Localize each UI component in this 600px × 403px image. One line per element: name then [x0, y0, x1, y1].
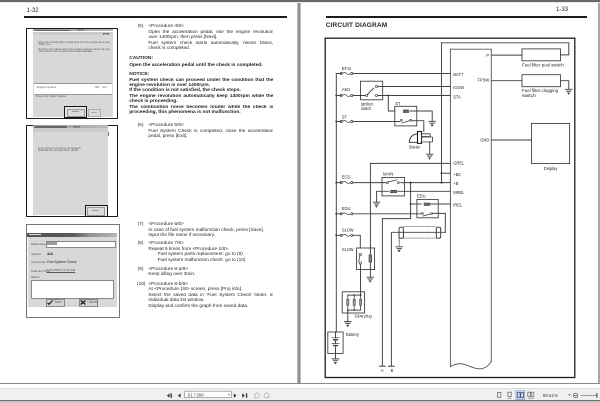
- node: bus-ECD junction: [335, 182, 337, 184]
- LEFT PAGE TEXT COLUMN: [138, 24, 144, 30]
- svg-text:switch: switch: [522, 93, 537, 98]
- svg-text:A: A: [381, 368, 384, 373]
- wire: top feed vertical: [441, 43, 443, 183]
- wire: battery to ground: [335, 353, 337, 358]
- svg-text:IGSW: IGSW: [453, 85, 464, 90]
- wire: ST fuse to ST relay contact: [336, 121, 399, 123]
- svg-text:Starter: Starter: [409, 145, 421, 150]
- pin +B: [453, 181, 458, 186]
- ground: clogging switch: [566, 89, 573, 94]
- ground: MAIN relay coil: [373, 202, 380, 207]
- SCREENSHOT BOX 2: [26, 125, 118, 218]
- top window edge: [0, 0, 600, 2]
- display unit: [532, 123, 570, 170]
- svg-text:BATT: BATT: [453, 72, 464, 77]
- battery: [328, 332, 360, 354]
- wire: starter to ground: [429, 142, 431, 154]
- wire: AM1 to ignition switch: [336, 95, 366, 97]
- EDU driver unit (dashed): [399, 227, 441, 239]
- svg-text:ST: ST: [342, 114, 348, 119]
- wire: EDU relay contact to EDU driver: [433, 213, 445, 232]
- node: bus-ST fuse junction: [335, 121, 337, 123]
- svg-text:EDU: EDU: [417, 193, 426, 198]
- svg-text:EDU: EDU: [342, 206, 351, 211]
- relay GLOW: [342, 247, 375, 270]
- wire: clogging switch to ground: [561, 81, 569, 89]
- ground: EDU driver: [396, 247, 403, 252]
- wire: EDU coil to IREL pin: [430, 203, 451, 205]
- wire: P pin to pool switch: [491, 54, 522, 56]
- svg-text:61 / 590: 61 / 590: [188, 392, 204, 397]
- wire: MAIN coil to MREL pin: [398, 190, 451, 192]
- node: STA wire to ST relay: [387, 95, 389, 97]
- svg-text:Fuel filter pool switch: Fuel filter pool switch: [522, 63, 564, 68]
- svg-text:STA: STA: [453, 94, 461, 99]
- bottom page edge line: [0, 383, 600, 384]
- wire: ignition switch to STA pin: [378, 95, 451, 97]
- fuse AM1: [340, 87, 353, 96]
- pin STA: [453, 94, 461, 99]
- wire: top feed horizontal to pool switch: [442, 43, 569, 55]
- RIGHT PAGE HEADER: [556, 7, 568, 13]
- wire: glow relay contact to glow plugs: [360, 264, 362, 295]
- wire: MAIN contact to +B pin: [401, 182, 451, 184]
- wire: ECD fuse to MAIN relay: [336, 182, 385, 184]
- wire: main left supply bus: [335, 74, 337, 333]
- svg-text:switch: switch: [361, 106, 372, 111]
- svg-text:FPSW: FPSW: [477, 78, 489, 83]
- motor: starter: [409, 132, 433, 150]
- pin MREL: [453, 190, 465, 195]
- svg-text:MAIN: MAIN: [383, 171, 393, 176]
- svg-text:Display: Display: [544, 166, 559, 171]
- svg-text:ECD: ECD: [342, 175, 351, 180]
- pin P: [486, 53, 489, 58]
- node: EDU coil feed: [410, 182, 412, 205]
- node: +B2 feed: [441, 172, 443, 174]
- node: +B feed: [441, 182, 443, 184]
- LEFT PAGE HEADER: [27, 8, 39, 14]
- ground: glow relay coil: [367, 277, 374, 282]
- wire: EFI1 to BATT pin: [336, 73, 450, 75]
- fuse EFI1: [340, 66, 353, 75]
- fuel filter pool switch: [522, 49, 564, 68]
- svg-text:GND: GND: [480, 137, 489, 142]
- fuse ST: [340, 114, 353, 122]
- pin GND: [480, 137, 489, 142]
- fuse EDU: [340, 206, 353, 215]
- page divider center: [297, 3, 301, 384]
- wire: +B feed down through EDU coil to terminal A: [382, 183, 410, 367]
- fuel filter clogging switch: [522, 75, 561, 98]
- wire: GLOW fuse to glow relay: [336, 235, 360, 248]
- wire: ST relay contact to starter: [412, 121, 424, 132]
- svg-text:B: B: [391, 368, 394, 373]
- wire: +B2 stub: [442, 172, 451, 174]
- svg-text:GLOW: GLOW: [342, 227, 354, 232]
- glow plug assembly: [342, 292, 372, 319]
- wire: MAIN coil to ground: [377, 191, 389, 202]
- svg-text:GREL: GREL: [453, 160, 465, 165]
- wire: feed to EDU coil: [411, 203, 422, 205]
- pin FPSW: [477, 78, 489, 83]
- bottom toolbar: [0, 388, 600, 401]
- svg-text:EFI1: EFI1: [342, 66, 352, 71]
- BOTTOM TOOLBAR CONTENT: [0, 388, 600, 402]
- node: bus-EDU junction: [335, 213, 337, 215]
- wire: EDU driver dotted ground lead: [398, 238, 400, 246]
- svg-text:P: P: [486, 53, 489, 58]
- relay MAIN: [382, 171, 405, 196]
- svg-text:GLOW: GLOW: [342, 247, 354, 252]
- wire: ignition switch to IGSW pin: [378, 86, 451, 88]
- terminal B: [389, 366, 395, 373]
- svg-text:Battery: Battery: [346, 332, 360, 337]
- outer diagram frame: [325, 38, 575, 377]
- ECU box: [450, 49, 491, 369]
- svg-text:Glow plug: Glow plug: [355, 314, 373, 319]
- wire: EDU driver to terminal B: [391, 232, 445, 366]
- svg-text:89.51%: 89.51%: [543, 393, 558, 398]
- svg-text:AM1: AM1: [342, 87, 351, 92]
- pin +B2: [453, 172, 461, 177]
- ground: glow plugs: [345, 322, 352, 327]
- wire: GND pin to display: [491, 139, 531, 141]
- pin BATT: [453, 72, 464, 77]
- relay ST: [395, 101, 417, 126]
- SCREENSHOT BOX 3 (save dialog): [26, 224, 121, 318]
- fuse GLOW: [340, 227, 353, 236]
- switch: ignition switch SW1: [361, 81, 383, 111]
- wire: glow plugs to ground: [347, 310, 349, 321]
- ground: ST relay coil: [429, 121, 436, 126]
- relay EDU: [417, 193, 438, 217]
- SCREENSHOT BOX 1: [26, 28, 118, 120]
- right window edge: [598, 3, 600, 384]
- node: bus-GLOW junction: [335, 234, 337, 236]
- wire: down to ST relay coil: [388, 96, 395, 112]
- wire: GREL pin to glow relay feed: [370, 163, 450, 247]
- wire: ST coil to ground: [410, 111, 432, 121]
- pin GREL: [453, 160, 465, 165]
- svg-text:+B2: +B2: [453, 172, 461, 177]
- pin IREL: [453, 203, 463, 208]
- fuse ECD: [340, 175, 353, 184]
- ground: battery: [332, 359, 339, 364]
- wire: EDU fuse to EDU relay contact: [336, 213, 421, 215]
- pin IGSW: [453, 85, 464, 90]
- wire: glow relay coil to ground: [369, 270, 371, 277]
- terminal A: [380, 366, 386, 373]
- svg-text:+B: +B: [453, 181, 458, 186]
- wire: FPSW pin to clogging switch: [491, 80, 522, 82]
- ground: starter: [426, 154, 433, 159]
- node: bus-AM1 junction: [335, 95, 337, 97]
- svg-text:IREL: IREL: [453, 203, 463, 208]
- svg-text:ST: ST: [395, 101, 401, 106]
- svg-text:MREL: MREL: [453, 190, 465, 195]
